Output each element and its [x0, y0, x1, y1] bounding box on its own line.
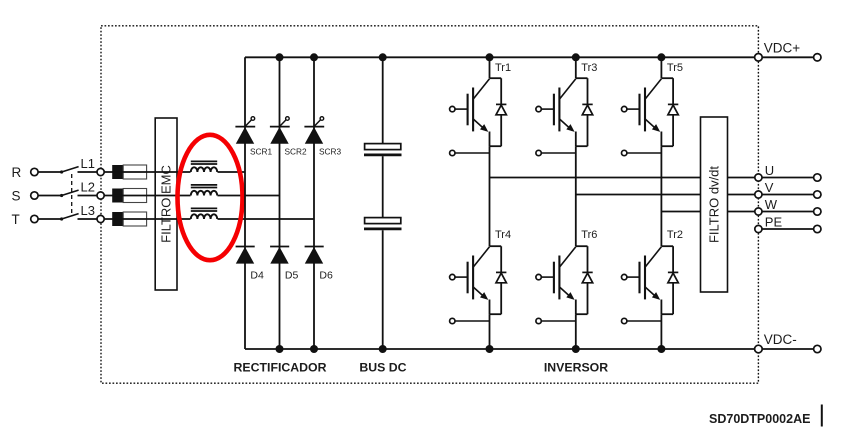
node L3 on enclosure border: [97, 215, 104, 222]
Tr4 kelvin emitter terminal: [450, 318, 455, 323]
Tr1 collector angle: [473, 79, 489, 99]
label L2: [81, 179, 95, 194]
red highlight ellipse: [178, 135, 243, 260]
border bushing VDC+: [755, 54, 763, 62]
diode D5: [270, 247, 289, 264]
label U: [765, 163, 774, 178]
Tr1 gate wire: [455, 108, 468, 110]
svg-text:INVERSOR: INVERSOR: [544, 361, 608, 375]
svg-text:Tr6: Tr6: [581, 229, 597, 241]
label SCR2: [285, 146, 308, 156]
label Tr1: [495, 62, 511, 74]
label VDC+: [764, 41, 801, 56]
svg-text:VDC-: VDC-: [764, 332, 797, 347]
fuse F2 body: [112, 189, 146, 203]
Tr5 kelvin emitter terminal: [622, 150, 627, 155]
wire T terminal to switch: [38, 218, 62, 220]
output terminal PE: [814, 225, 821, 232]
input terminal T: [31, 215, 38, 222]
inductor choke 1 core: [191, 161, 217, 164]
inductor choke 3 core: [191, 208, 217, 211]
label L3: [81, 203, 95, 218]
border bushing PE: [755, 225, 762, 232]
Tr1 body bar: [472, 88, 474, 132]
wire Tr6 kelvin emitter: [541, 320, 576, 322]
svg-text:Tr1: Tr1: [495, 62, 511, 74]
wire Tr3 kelvin emitter: [541, 152, 576, 154]
wire Tr1 collector-diode corner: [490, 77, 502, 79]
switch S2 pivot: [60, 194, 63, 197]
wire Tr5 kelvin emitter: [627, 152, 662, 154]
svg-text:RECTIFICADOR: RECTIFICADOR: [234, 361, 327, 375]
label D5: [285, 270, 299, 282]
wire Tr2 emitter lead: [660, 300, 662, 315]
label Tr4: [495, 229, 511, 241]
svg-text:U: U: [765, 163, 774, 178]
wire Tr4 emitter-diode corner: [490, 313, 502, 315]
Tr2 body bar: [644, 256, 646, 300]
junction top rail SCR3: [310, 53, 318, 61]
label W: [765, 197, 778, 212]
bus wire top: [382, 57, 384, 143]
wire phase column 2: [575, 146, 577, 246]
EMC filter box: [155, 118, 177, 290]
dv/dt filter label: [706, 166, 721, 243]
inductor choke 2 coil: [191, 191, 217, 196]
junction top rail Tr3: [572, 53, 580, 61]
wire switch to node L1: [78, 171, 98, 173]
junction bottom rail Tr2: [657, 345, 665, 353]
inductor choke 2 core: [191, 185, 217, 188]
node L2 on enclosure border: [97, 192, 104, 199]
label Tr5: [667, 62, 683, 74]
Tr2 gate terminal: [622, 274, 627, 279]
svg-text:Tr2: Tr2: [667, 229, 683, 241]
input terminal S: [31, 192, 38, 199]
Tr1 emitter angle: [473, 119, 486, 131]
enclosure dashed border: [101, 26, 758, 383]
thyristor SCR1: [235, 117, 255, 144]
wire Tr1 kelvin emitter: [455, 152, 490, 154]
phase V line to filter: [576, 194, 701, 196]
wire filter to U terminal: [728, 177, 814, 179]
border bushing W: [755, 208, 762, 215]
revision tick: [821, 405, 823, 427]
Tr4 emitter angle: [473, 287, 486, 299]
wire Tr3 emitter lead: [575, 132, 577, 147]
Tr5 gate terminal: [622, 106, 627, 111]
svg-text:Tr3: Tr3: [581, 62, 597, 74]
wire Tr5 freewheel diode branch: [672, 78, 674, 146]
Tr6 gate wire: [541, 276, 554, 278]
label L1: [81, 156, 95, 171]
label SCR1: [250, 146, 273, 156]
wire inductor to rectifier column 3: [218, 218, 315, 220]
svg-text:Tr4: Tr4: [495, 229, 511, 241]
label RECTIFICADOR: [234, 361, 327, 375]
svg-text:PE: PE: [765, 215, 783, 230]
wire PE to terminal: [758, 228, 813, 230]
wire Tr6 emitter-diode corner: [576, 313, 588, 315]
fuse F3 body: [112, 212, 146, 226]
Tr1 gate bar: [467, 94, 469, 126]
rectifier column 3 wire: [313, 57, 315, 349]
bus wire bottom: [382, 230, 384, 349]
svg-text:T: T: [12, 212, 20, 227]
svg-text:D6: D6: [319, 270, 333, 282]
rectifier column 2 wire: [279, 57, 281, 349]
Tr5 body bar: [644, 88, 646, 132]
terminal label T: [12, 212, 20, 227]
Tr3 kelvin emitter terminal: [536, 150, 541, 155]
freewheel diode of Tr5: [668, 104, 678, 114]
wire filter to W terminal: [728, 211, 814, 213]
svg-text:R: R: [12, 165, 22, 180]
wire Tr6 collector-diode corner: [576, 245, 588, 247]
fuse F1 body: [112, 165, 146, 179]
Tr4 body bar: [472, 256, 474, 300]
wire switch to node L2: [78, 195, 98, 197]
svg-text:D4: D4: [250, 270, 264, 282]
Tr4 collector angle: [473, 247, 489, 267]
wire inductor to rectifier column 1: [218, 171, 246, 173]
Tr1 emitter arrowhead: [480, 124, 488, 132]
capacitor C1: [364, 144, 402, 155]
inductor choke 1 coil: [191, 167, 217, 172]
document number: [709, 412, 810, 426]
Tr6 emitter arrowhead: [566, 292, 574, 300]
Tr3 body bar: [558, 88, 560, 132]
wire Tr4 to bottom rail: [489, 314, 491, 349]
Tr4 gate wire: [455, 276, 468, 278]
svg-text:L3: L3: [81, 203, 95, 218]
Tr4 emitter arrowhead: [480, 292, 488, 300]
junction bottom rail bus: [379, 345, 387, 353]
VDC- rail: [245, 348, 814, 350]
wire Tr3 emitter-diode corner: [576, 145, 588, 147]
svg-text:SCR2: SCR2: [285, 146, 308, 156]
Tr6 gate terminal: [536, 274, 541, 279]
svg-text:W: W: [765, 197, 778, 212]
junction top rail bus: [379, 53, 387, 61]
wire Tr5 collector-diode corner: [661, 77, 673, 79]
wire phase column 3: [660, 146, 662, 246]
wire filter to V terminal: [728, 194, 814, 196]
switch S2 blade: [62, 190, 79, 195]
wire Tr6 emitter lead: [575, 300, 577, 315]
wire EMC to inductor L2: [155, 195, 190, 197]
freewheel diode of Tr1: [496, 104, 506, 114]
svg-text:D5: D5: [285, 270, 299, 282]
inductor choke 3 coil: [191, 214, 217, 219]
label BUS DC: [359, 361, 406, 375]
switch S1 pivot: [60, 170, 63, 173]
svg-text:BUS DC: BUS DC: [359, 361, 406, 375]
Tr2 gate bar: [638, 262, 640, 294]
wire EMC to inductor L1: [155, 171, 190, 173]
label V: [765, 180, 774, 195]
label D6: [319, 270, 333, 282]
wire Tr4 freewheel diode branch: [500, 246, 502, 314]
Tr5 emitter arrowhead: [652, 124, 660, 132]
label VDC-: [764, 332, 797, 347]
wire node L3 to EMC filter: [104, 218, 155, 220]
output terminal U: [814, 174, 821, 181]
Tr3 emitter arrowhead: [566, 124, 574, 132]
phase W line to filter: [661, 211, 700, 213]
svg-text:FILTRO EMC: FILTRO EMC: [159, 165, 174, 243]
wire Tr1 emitter-diode corner: [490, 145, 502, 147]
terminal VDC-: [814, 345, 821, 352]
label Tr2: [667, 229, 683, 241]
wire switch to node L3: [78, 218, 98, 220]
Tr3 emitter angle: [559, 119, 572, 131]
diode D6: [305, 247, 324, 264]
wire Tr2 emitter-diode corner: [661, 313, 673, 315]
svg-text:L1: L1: [81, 156, 95, 171]
wire node L2 to EMC filter: [104, 195, 155, 197]
switch gang dashed link: [71, 174, 73, 217]
wire Tr2 freewheel diode branch: [672, 246, 674, 314]
wire inductor to rectifier column 2: [218, 195, 280, 197]
Tr2 collector angle: [645, 247, 661, 267]
svg-text:FILTRO dv/dt: FILTRO dv/dt: [706, 166, 721, 243]
wire Tr4 emitter lead: [489, 300, 491, 315]
wire Tr4 kelvin emitter: [455, 320, 490, 322]
Tr2 emitter angle: [645, 287, 658, 299]
wire S terminal to switch: [38, 195, 62, 197]
junction top rail Tr5: [657, 53, 665, 61]
svg-text:SCR1: SCR1: [250, 146, 273, 156]
label SCR3: [319, 146, 342, 156]
freewheel diode of Tr2: [668, 272, 678, 282]
wire Tr2 kelvin emitter: [627, 320, 662, 322]
junction bottom rail D5: [276, 345, 284, 353]
svg-text:L2: L2: [81, 179, 95, 194]
wire Tr5 emitter lead: [660, 132, 662, 147]
wire Tr5 emitter-diode corner: [661, 145, 673, 147]
Tr2 gate wire: [627, 276, 640, 278]
junction top rail SCR2: [276, 53, 284, 61]
wire Tr1 collector lead: [489, 57, 491, 78]
bus wire middle: [382, 156, 384, 217]
Tr2 emitter arrowhead: [652, 292, 660, 300]
Tr5 emitter angle: [645, 119, 658, 131]
Tr6 collector angle: [559, 247, 575, 267]
wire Tr3 freewheel diode branch: [587, 78, 589, 146]
Tr2 kelvin emitter terminal: [622, 318, 627, 323]
wire Tr2 to bottom rail: [660, 314, 662, 349]
input terminal R: [31, 168, 38, 175]
wire Tr6 freewheel diode branch: [587, 246, 589, 314]
node L1 on enclosure border: [97, 168, 104, 175]
wire Tr3 collector lead: [575, 57, 577, 78]
terminal VDC+: [814, 54, 821, 61]
wire Tr5 collector lead: [660, 57, 662, 78]
Tr3 collector angle: [559, 79, 575, 99]
freewheel diode of Tr6: [582, 272, 592, 282]
terminal label S: [12, 189, 21, 204]
label D4: [250, 270, 264, 282]
svg-text:SCR3: SCR3: [319, 146, 342, 156]
capacitor C2: [364, 218, 402, 229]
Tr1 kelvin emitter terminal: [450, 150, 455, 155]
Tr6 kelvin emitter terminal: [536, 318, 541, 323]
EMC filter label: [159, 165, 174, 243]
Tr6 body bar: [558, 256, 560, 300]
rectifier column 1 wire: [244, 57, 246, 349]
Tr3 gate bar: [553, 94, 555, 126]
output terminal W: [814, 208, 821, 215]
phase U line to filter: [490, 177, 701, 179]
wire Tr1 emitter lead: [489, 132, 491, 147]
Tr5 gate wire: [627, 108, 640, 110]
thyristor SCR2: [270, 117, 290, 144]
border bushing V: [755, 191, 762, 198]
label Tr3: [581, 62, 597, 74]
border bushing U: [755, 174, 762, 181]
label INVERSOR: [544, 361, 608, 375]
wire Tr1 freewheel diode branch: [500, 78, 502, 146]
dv/dt filter box: [701, 117, 728, 292]
label PE: [765, 215, 783, 230]
svg-text:VDC+: VDC+: [764, 41, 801, 56]
wire R terminal to switch: [38, 171, 62, 173]
Tr4 gate terminal: [450, 274, 455, 279]
wire Tr3 collector-diode corner: [576, 77, 588, 79]
wire EMC to inductor L3: [155, 218, 190, 220]
svg-text:S: S: [12, 189, 21, 204]
junction bottom rail Tr4: [486, 345, 494, 353]
Tr1 gate terminal: [450, 106, 455, 111]
freewheel diode of Tr4: [496, 272, 506, 282]
wire phase column 1: [489, 146, 491, 246]
junction bottom rail Tr6: [572, 345, 580, 353]
Tr3 gate terminal: [536, 106, 541, 111]
label Tr6: [581, 229, 597, 241]
Tr6 gate bar: [553, 262, 555, 294]
wire Tr4 collector-diode corner: [490, 245, 502, 247]
Tr3 gate wire: [541, 108, 554, 110]
Tr6 emitter angle: [559, 287, 572, 299]
terminal label R: [12, 165, 22, 180]
wire Tr2 collector-diode corner: [661, 245, 673, 247]
freewheel diode of Tr3: [582, 104, 592, 114]
diode D4: [236, 247, 255, 264]
svg-text:SD70DTP0002AE: SD70DTP0002AE: [709, 412, 810, 426]
output terminal V: [814, 191, 821, 198]
wire Tr6 to bottom rail: [575, 314, 577, 349]
wire node L1 to EMC filter: [104, 171, 155, 173]
svg-text:Tr5: Tr5: [667, 62, 683, 74]
border bushing VDC-: [755, 345, 763, 353]
switch S1 blade: [62, 167, 79, 172]
switch S3 pivot: [60, 217, 63, 220]
Tr5 collector angle: [645, 79, 661, 99]
switch S3 blade: [62, 214, 79, 219]
junction bottom rail D6: [310, 345, 318, 353]
Tr4 gate bar: [467, 262, 469, 294]
svg-text:V: V: [765, 180, 774, 195]
junction top rail Tr1: [486, 53, 494, 61]
thyristor SCR3: [304, 117, 324, 144]
VDC+ rail: [245, 56, 814, 58]
Tr5 gate bar: [638, 94, 640, 126]
